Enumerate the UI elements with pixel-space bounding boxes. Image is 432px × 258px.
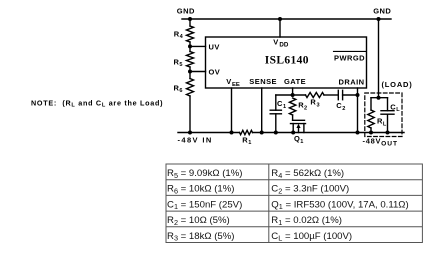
svg-text:GND: GND <box>373 6 391 15</box>
load dashed box <box>365 93 402 137</box>
wire VDD pin <box>279 19 281 37</box>
svg-text:R5 = 9.09kΩ (1%): R5 = 9.09kΩ (1%) <box>167 168 243 180</box>
svg-text:1: 1 <box>300 139 303 145</box>
node Q1 source rail <box>291 131 295 135</box>
svg-text:SENSE: SENSE <box>249 77 277 86</box>
node C2 drain junction <box>356 93 360 97</box>
svg-text:V: V <box>273 38 278 47</box>
svg-text:1: 1 <box>248 140 251 146</box>
node load top <box>377 96 381 100</box>
svg-text:R4 = 562kΩ (1%): R4 = 562kΩ (1%) <box>271 168 344 180</box>
resistor R3 <box>306 93 325 98</box>
node SENSE rail <box>260 131 264 135</box>
svg-text:C1 = 150nF (25V): C1 = 150nF (25V) <box>167 199 242 211</box>
wire DRAIN pin <box>357 88 359 133</box>
svg-text:EE: EE <box>232 82 240 88</box>
resistor R4 <box>187 26 194 42</box>
wire SENSE pin <box>261 88 263 133</box>
resistor R2 <box>289 98 295 115</box>
capacitor C1 <box>270 109 281 111</box>
wire top GND rail <box>182 18 391 20</box>
resistor R1 <box>240 130 253 134</box>
svg-text:R3 = 18kΩ (5%): R3 = 18kΩ (5%) <box>167 231 235 243</box>
svg-text:DRAIN: DRAIN <box>339 78 365 87</box>
node VEE rail <box>230 131 234 135</box>
svg-text:R: R <box>310 98 316 107</box>
svg-text:-48V IN: -48V IN <box>178 136 213 145</box>
wire R4 top lead <box>189 19 191 26</box>
svg-text:R6 = 10kΩ (1%): R6 = 10kΩ (1%) <box>167 184 235 196</box>
node gate junction <box>291 93 295 97</box>
svg-text:1: 1 <box>283 104 286 110</box>
wire GATE pin <box>292 88 294 95</box>
wire R5-R6 <box>189 67 191 79</box>
svg-text:3: 3 <box>317 102 320 108</box>
wire CL top lead <box>387 98 389 111</box>
table <box>166 164 422 243</box>
svg-text:CL = 100µF (100V): CL = 100µF (100V) <box>271 231 352 243</box>
wire CL bottom lead <box>387 114 389 132</box>
wire C1 bottom lead <box>275 114 277 133</box>
capacitor C2 <box>337 90 339 99</box>
svg-text:C2 = 3.3nF (100V): C2 = 3.3nF (100V) <box>271 184 349 196</box>
svg-text:(LOAD): (LOAD) <box>382 80 413 89</box>
svg-text:UV: UV <box>209 43 220 52</box>
svg-text:V: V <box>226 77 231 86</box>
transistor Q1 <box>291 120 306 132</box>
svg-text:DD: DD <box>279 41 288 48</box>
svg-text:6: 6 <box>179 88 182 94</box>
svg-text:ISL6140: ISL6140 <box>265 54 309 66</box>
wire gate node horizontal <box>276 94 306 96</box>
svg-text:PWRGD: PWRGD <box>334 54 365 63</box>
node R6 rail <box>188 131 192 135</box>
wire -48V IN rail left <box>178 132 240 134</box>
svg-text:2: 2 <box>342 106 345 112</box>
svg-text:2: 2 <box>304 105 307 111</box>
node drain rail <box>356 131 360 135</box>
wire C2 to drain <box>343 94 358 96</box>
svg-text:L: L <box>383 121 387 127</box>
wire RL top lead <box>370 98 372 110</box>
svg-text:NOTE: (RL and CL are the Load: NOTE: (RL and CL are the Load) <box>31 98 163 108</box>
node OV tap <box>188 70 192 74</box>
svg-text:GND: GND <box>177 6 195 15</box>
wire VEE pin <box>231 88 233 133</box>
node top-right junction <box>377 17 381 21</box>
node CL rail <box>386 131 390 135</box>
svg-text:L: L <box>396 107 400 113</box>
capacitor CL <box>381 110 394 112</box>
node C1 rail <box>274 131 278 135</box>
wire load top node <box>371 97 388 99</box>
wire R6 to -48V rail <box>189 96 191 133</box>
wire C1 top lead <box>275 95 277 110</box>
op-amp U1 ISL6140 box <box>206 37 367 88</box>
svg-text:GATE: GATE <box>284 77 306 86</box>
node VDD junction <box>278 17 282 21</box>
resistor R6 <box>187 79 194 97</box>
node UV tap <box>188 44 192 48</box>
node RL rail <box>369 131 373 135</box>
svg-text:Q1 = IRF530 (100V, 17A, 0.11Ω): Q1 = IRF530 (100V, 17A, 0.11Ω) <box>271 199 408 211</box>
wire R4-R5 <box>189 42 191 52</box>
PWRGD overline <box>334 50 366 52</box>
wire R2 to gate bar <box>292 115 294 120</box>
wire UV tap <box>190 45 206 47</box>
svg-text:5: 5 <box>179 62 182 68</box>
wire R3 to C2 <box>324 94 338 96</box>
wire right GND drop <box>378 19 380 98</box>
svg-text:R1 = 0.02Ω (1%): R1 = 0.02Ω (1%) <box>271 215 342 227</box>
resistor RL <box>368 110 374 128</box>
resistor R5 <box>187 52 194 68</box>
node top-left junction <box>188 17 192 21</box>
wire -48V rail right <box>253 132 405 134</box>
svg-text:OV: OV <box>209 68 221 77</box>
wire RL bottom lead <box>370 128 372 133</box>
wire OV tap <box>190 71 206 73</box>
